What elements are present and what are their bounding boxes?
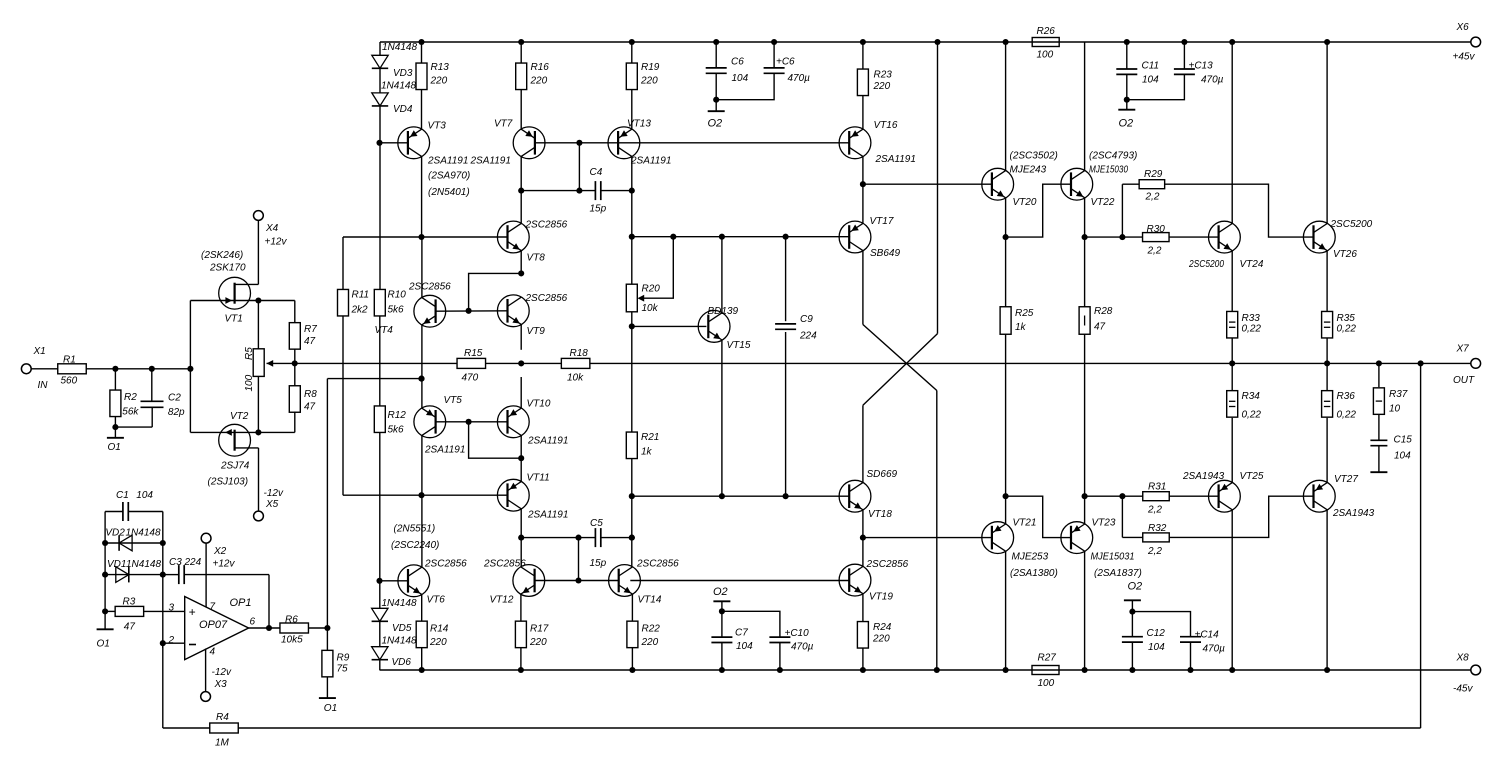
svg-text:220: 220: [873, 81, 891, 92]
svg-text:-45v: -45v: [1453, 684, 1473, 695]
svg-text:R36: R36: [1337, 391, 1356, 402]
svg-text:O1: O1: [97, 639, 110, 650]
wire VT8e to bases: [469, 273, 522, 310]
node C7 top: [719, 608, 725, 614]
transistor VT11: [497, 479, 529, 511]
svg-text:2k2: 2k2: [351, 305, 369, 316]
wire VT10 top: [520, 377, 522, 408]
wire diode chain top: [379, 42, 381, 55]
svg-text:VT6: VT6: [427, 595, 446, 606]
svg-text:R3: R3: [123, 597, 136, 608]
svg-text:0,22: 0,22: [1337, 324, 1357, 335]
resistor R6: [280, 623, 309, 633]
wire VT23 emitter up: [1084, 496, 1086, 524]
wire C3 row: [163, 574, 179, 576]
svg-text:C1: C1: [116, 490, 129, 501]
node rail VT20: [1003, 39, 1009, 45]
terminal X5: [254, 511, 264, 521]
svg-text:VD6: VD6: [392, 657, 412, 668]
ground O2 bottom mid inv: [713, 600, 730, 602]
svg-text:470: 470: [462, 373, 479, 384]
svg-text:2SC2856: 2SC2856: [525, 293, 568, 304]
transistor VT10: [497, 406, 529, 438]
svg-text:(2SC4793): (2SC4793): [1089, 151, 1137, 162]
resistor R24: [857, 622, 868, 649]
wire VT12 base row: [535, 580, 579, 582]
wire row495 to VT18: [632, 495, 850, 497]
node rail C6: [713, 39, 719, 45]
svg-text:R8: R8: [304, 389, 317, 400]
node VT21c rail: [1003, 667, 1009, 673]
node VT23e: [1082, 493, 1088, 499]
node VT5/VT10 base: [466, 419, 472, 425]
svg-text:220: 220: [429, 637, 447, 648]
svg-text:1M: 1M: [215, 738, 230, 749]
svg-text:1N4148: 1N4148: [126, 559, 161, 570]
svg-text:1N4148: 1N4148: [382, 42, 417, 53]
resistor R3: [115, 606, 143, 616]
capacitor C14: [1180, 636, 1201, 638]
svg-text:OP1: OP1: [230, 597, 252, 609]
ground O2 bottom right inv: [1124, 599, 1141, 601]
svg-text:R26: R26: [1037, 26, 1056, 37]
svg-text:104: 104: [136, 490, 153, 501]
capacitor C6: [706, 67, 727, 69]
wire X diag B: [863, 334, 938, 406]
svg-text:(2N5551): (2N5551): [394, 524, 436, 535]
svg-text:5k6: 5k6: [388, 425, 405, 436]
node C12 top: [1129, 609, 1135, 615]
node VT15 collector: [719, 234, 725, 240]
node VT4/VT9 base: [466, 308, 472, 314]
svg-text:O2: O2: [1128, 581, 1143, 593]
svg-text:VT27: VT27: [1334, 474, 1358, 485]
svg-text:75: 75: [337, 664, 349, 675]
svg-text:-12v: -12v: [212, 667, 232, 678]
node VT22e: [1082, 234, 1088, 240]
resistor R13: [416, 63, 427, 90]
svg-text:2,2: 2,2: [1147, 246, 1162, 257]
wire VT18 collector: [862, 405, 864, 482]
wire X5 riser: [258, 448, 260, 511]
wire R25 bottom: [1005, 334, 1007, 496]
ground C15 end: [1370, 471, 1387, 473]
wire C1 top row: [105, 511, 123, 513]
svg-text:R20: R20: [642, 284, 661, 295]
transistor VT20: [982, 168, 1014, 200]
node R24 rail: [860, 667, 866, 673]
wire C1 top row right: [129, 511, 163, 513]
wire feedback right riser: [1420, 363, 1422, 728]
node R6 out: [324, 625, 330, 631]
wire VT21 collector dn: [1005, 551, 1007, 670]
svg-text:1N4148: 1N4148: [382, 598, 417, 609]
resistor R37: [1373, 388, 1384, 415]
transistor VT27: [1303, 480, 1335, 512]
wire C4 row right: [601, 190, 632, 192]
wire VT8 base lead: [422, 236, 508, 238]
svg-text:1k: 1k: [641, 447, 653, 458]
node railB top: [934, 39, 940, 45]
svg-text:(2SJ103): (2SJ103): [208, 477, 249, 488]
svg-text:1N4148: 1N4148: [382, 636, 417, 647]
node VT27c rail: [1324, 667, 1330, 673]
wire VT5-VT6 col: [421, 435, 423, 567]
svg-text:R33: R33: [1242, 313, 1261, 324]
wire -45v bottom rail: [380, 669, 1471, 671]
svg-text:VT16: VT16: [874, 120, 898, 131]
node rail VT24: [1229, 39, 1235, 45]
wire R8 bottom lead: [294, 412, 296, 433]
wire VT7-VT8 col: [520, 156, 522, 224]
wire C11 bottom lead: [1126, 74, 1128, 109]
capacitor C4: [594, 181, 596, 200]
wire pin7 X2 riser: [205, 543, 207, 607]
wire OUT / feedback row: [295, 362, 1471, 364]
node R37 top: [1376, 360, 1382, 366]
svg-text:VT12: VT12: [490, 595, 514, 606]
wire C12 top lead: [1131, 612, 1133, 637]
svg-text:2SC2856: 2SC2856: [483, 559, 526, 570]
svg-text:R13: R13: [431, 62, 450, 73]
svg-text:2SC2856: 2SC2856: [636, 559, 679, 570]
wire C13 bottom lead: [1127, 74, 1185, 99]
resistor R15: [457, 358, 486, 368]
wire R9 top: [326, 628, 328, 650]
node VT8 base: [418, 234, 424, 240]
node VD2 right: [160, 540, 166, 546]
svg-text:VT7: VT7: [494, 119, 513, 130]
svg-text:VT24: VT24: [1240, 259, 1264, 270]
svg-text:VT2: VT2: [230, 411, 249, 422]
node R14 rail: [419, 667, 425, 673]
wire VT8 base row: [343, 236, 422, 238]
node VD1 left: [102, 572, 108, 578]
svg-text:VT10: VT10: [527, 399, 551, 410]
wire C7 top lead: [721, 611, 723, 637]
resistor R22: [627, 621, 638, 648]
svg-text:R11: R11: [352, 290, 370, 301]
wire VD2 row: [105, 542, 163, 544]
svg-text:R6: R6: [285, 615, 298, 626]
wire VT15 collector: [721, 237, 723, 313]
svg-text:R15: R15: [464, 348, 483, 359]
svg-text:X6: X6: [1456, 22, 1470, 33]
node C5 left: [518, 535, 524, 541]
node VT2 drain: [255, 429, 261, 435]
transistor VT4: [414, 295, 446, 327]
svg-text:10k: 10k: [642, 303, 659, 314]
wire VT11 base row: [343, 494, 508, 496]
ground O1 input: [107, 437, 124, 439]
wire R23 top: [862, 42, 864, 70]
wire VT25 collector: [1231, 510, 1233, 670]
wire +in riser/dot: [105, 610, 116, 612]
svg-text:R24: R24: [873, 622, 892, 633]
svg-text:X3: X3: [214, 679, 228, 690]
svg-text:R21: R21: [641, 432, 659, 443]
wire VD1 row: [105, 574, 163, 576]
svg-text:R31: R31: [1148, 482, 1166, 493]
svg-text:-12v: -12v: [264, 488, 284, 499]
capacitor C5: [594, 528, 596, 547]
svg-text:R22: R22: [642, 624, 661, 635]
wire base row VT5-VT10: [436, 421, 508, 423]
node VT6 base: [376, 578, 382, 584]
wire R12 down: [379, 432, 381, 608]
svg-text:C15: C15: [1394, 435, 1413, 446]
svg-text:+C6: +C6: [776, 57, 795, 68]
ground O2 top mid: [708, 110, 725, 112]
wire R10-R12: [379, 316, 381, 406]
resistor R30: [1143, 233, 1170, 242]
wire R20 bottom: [631, 312, 633, 433]
wire opamp out: [249, 627, 281, 629]
svg-text:10: 10: [1389, 404, 1401, 415]
node R29 col: [1119, 234, 1125, 240]
node R33 out: [1229, 360, 1235, 366]
svg-text:O2: O2: [708, 118, 723, 130]
svg-text:R34: R34: [1242, 391, 1261, 402]
wire input row: [86, 368, 190, 370]
pot R20 body: [626, 284, 637, 312]
transistor VT7: [513, 127, 545, 159]
transistor VT9: [497, 295, 529, 327]
transistor VT1: [219, 277, 251, 309]
wire R14 bottom: [421, 648, 423, 671]
wire R29 riser: [1121, 184, 1123, 237]
diode VD4: [372, 93, 388, 106]
transistor VT23: [1061, 522, 1093, 554]
node R35 out: [1324, 360, 1330, 366]
wire driver bottom row: [863, 537, 992, 539]
ground O1 R9: [319, 697, 336, 699]
transistor VT6: [398, 565, 430, 597]
svg-text:VT22: VT22: [1091, 197, 1115, 208]
svg-text:O1: O1: [108, 442, 121, 453]
wire +45v top rail: [380, 41, 1471, 43]
svg-text:VT23: VT23: [1092, 518, 1116, 529]
wire C10 bottom lead: [779, 643, 781, 671]
wire R20 top row: [632, 236, 674, 238]
transistor VT17: [839, 221, 871, 253]
svg-text:1N4148: 1N4148: [126, 528, 161, 539]
wire VD3-VD4: [379, 68, 381, 93]
node R20 top: [629, 234, 635, 240]
transistor VT19: [839, 564, 871, 596]
svg-text:2SA1943: 2SA1943: [1332, 508, 1375, 519]
node out-C3: [266, 625, 272, 631]
svg-text:C7: C7: [735, 628, 748, 639]
svg-text:X1: X1: [33, 346, 46, 357]
wire R30 row left: [1085, 236, 1143, 238]
wire VT8-dot: [520, 251, 522, 274]
transistor VT12: [513, 565, 545, 597]
node C10 rail: [777, 667, 783, 673]
wire R5 riser: [257, 301, 259, 349]
wire C5 row: [521, 537, 595, 539]
wire VT19-R24: [862, 594, 864, 622]
resistor R19: [626, 63, 637, 90]
node C9 top: [783, 234, 789, 240]
node VT21e: [1003, 493, 1009, 499]
wire VT2 gate row: [190, 431, 258, 433]
svg-text:VT11: VT11: [527, 473, 550, 484]
wire R19 top: [631, 42, 633, 64]
wire VT15 emitter col: [721, 340, 723, 496]
svg-text:56k: 56k: [122, 407, 139, 418]
node C11-C13: [1124, 97, 1130, 103]
svg-text:R27: R27: [1038, 653, 1057, 664]
wire C2 top lead: [151, 369, 153, 402]
svg-text:R12: R12: [388, 410, 407, 421]
svg-text:C11: C11: [1142, 61, 1160, 72]
wire R28 bottom: [1084, 334, 1086, 496]
node R2-C2 bottom: [112, 424, 118, 430]
node R3 left: [102, 608, 108, 614]
svg-text:224: 224: [184, 557, 202, 568]
wire C9 bottom lead: [785, 332, 787, 496]
wire R30 to VT24: [1169, 236, 1219, 238]
transistor VT3: [398, 127, 430, 159]
svg-text:R19: R19: [641, 62, 660, 73]
resistor R9: [322, 650, 333, 677]
wire R19-VT13: [631, 89, 633, 129]
svg-text:+45v: +45v: [1453, 52, 1476, 63]
transistor VT18: [839, 480, 871, 512]
node VT20e: [1003, 234, 1009, 240]
svg-text:X5: X5: [265, 499, 279, 510]
wire R9 bottom: [326, 677, 328, 698]
wire op out top row: [327, 378, 421, 380]
svg-text:5k6: 5k6: [388, 305, 405, 316]
node R31-R32 col: [1119, 493, 1125, 499]
node VT12/14 base: [575, 577, 581, 583]
capacitor C15: [1370, 439, 1387, 441]
svg-text:104: 104: [1142, 75, 1159, 86]
wire left net riser: [104, 512, 106, 630]
svg-text:VT8: VT8: [527, 253, 546, 264]
node R20 wiper top: [670, 234, 676, 240]
node X colA rail: [934, 667, 940, 673]
svg-text:R1: R1: [63, 355, 76, 366]
svg-text:VT18: VT18: [868, 509, 892, 520]
svg-text:X2: X2: [213, 546, 227, 557]
svg-text:+C13: +C13: [1189, 61, 1214, 72]
node R22 rail: [629, 667, 635, 673]
svg-text:100: 100: [1038, 678, 1055, 689]
node C14 rail: [1187, 667, 1193, 673]
wire VT16-VT17: [862, 156, 864, 223]
capacitor C12: [1122, 636, 1143, 638]
svg-text:47: 47: [124, 622, 136, 633]
terminal X7: [1471, 359, 1481, 369]
svg-text:MJE15030: MJE15030: [1089, 165, 1128, 176]
svg-text:R30: R30: [1147, 224, 1166, 235]
svg-text:VT13: VT13: [627, 119, 651, 130]
wire VT27 collector: [1326, 510, 1328, 670]
op-amp OP1 OP07: [185, 597, 249, 660]
svg-text:X4: X4: [265, 223, 279, 234]
svg-text:VD4: VD4: [393, 104, 413, 115]
resistor R21: [626, 432, 637, 459]
svg-text:0,22: 0,22: [1242, 324, 1262, 335]
wire X colB: [937, 42, 939, 334]
node rail VT26: [1324, 39, 1330, 45]
node -in: [160, 640, 166, 646]
svg-text:2SA1191: 2SA1191: [875, 154, 916, 165]
svg-text:X7: X7: [1456, 344, 1470, 355]
svg-text:220: 220: [641, 637, 659, 648]
node VT3 base: [376, 140, 382, 146]
node rail R19: [629, 39, 635, 45]
resistor R34: [1227, 391, 1238, 418]
wire R7 bottom lead: [294, 349, 296, 363]
svg-text:VT26: VT26: [1333, 249, 1357, 260]
svg-text:R37: R37: [1389, 389, 1408, 400]
resistor R1: [58, 364, 87, 374]
node input-R2: [112, 366, 118, 372]
svg-text:220: 220: [872, 634, 890, 645]
wire VT14-R22: [631, 594, 633, 621]
svg-text:C4: C4: [590, 167, 603, 178]
wire C8 bottom lead: [716, 73, 774, 99]
svg-text:IN: IN: [38, 380, 49, 391]
resistor R31: [1143, 492, 1170, 501]
wire C4 row: [521, 190, 595, 192]
diode VD1 1N4148: [116, 567, 129, 583]
svg-text:R4: R4: [216, 712, 229, 723]
wire VT6 base: [380, 580, 408, 582]
node VD2 left: [102, 540, 108, 546]
wire R20 wiper loop: [640, 237, 673, 299]
wire C2 bottom link: [115, 426, 152, 428]
wire C6 bottom lead: [715, 73, 717, 111]
svg-text:R32: R32: [1148, 523, 1167, 534]
svg-text:82p: 82p: [168, 407, 185, 418]
svg-text:MJE243: MJE243: [1010, 165, 1047, 176]
svg-text:VD2: VD2: [105, 528, 125, 539]
terminal X8: [1471, 665, 1481, 675]
wire O2 stem bottom mid: [721, 601, 723, 611]
wire VT1 node to R7: [258, 300, 294, 302]
wire X colA down: [936, 391, 938, 671]
svg-text:MJE253: MJE253: [1012, 552, 1049, 563]
wire C4 riser: [578, 143, 580, 191]
svg-text:OUT: OUT: [1453, 375, 1475, 386]
wire VT6-R14: [421, 594, 423, 621]
svg-text:MJE15031: MJE15031: [1091, 552, 1135, 563]
svg-text:OP07: OP07: [199, 619, 228, 631]
node rail R13: [418, 39, 424, 45]
transistor VT25: [1209, 480, 1241, 512]
svg-text:220: 220: [430, 76, 448, 87]
svg-text:470µ: 470µ: [788, 73, 811, 84]
svg-text:R2: R2: [124, 392, 137, 403]
wire R24 bottom: [862, 648, 864, 670]
wire C4-R20 col: [631, 191, 633, 285]
wire VT26 emitter: [1326, 251, 1328, 313]
svg-text:+C14: +C14: [1195, 630, 1220, 641]
terminal X2: [201, 533, 211, 543]
wire VT23 collector dn: [1084, 551, 1086, 670]
node VT11 base row: [418, 492, 424, 498]
svg-text:R17: R17: [530, 624, 549, 635]
node VT7-VT13 base: [576, 140, 582, 146]
wire C13 top lead: [1183, 42, 1185, 69]
svg-text:47: 47: [304, 402, 316, 413]
wire C14 bottom lead: [1190, 642, 1192, 670]
